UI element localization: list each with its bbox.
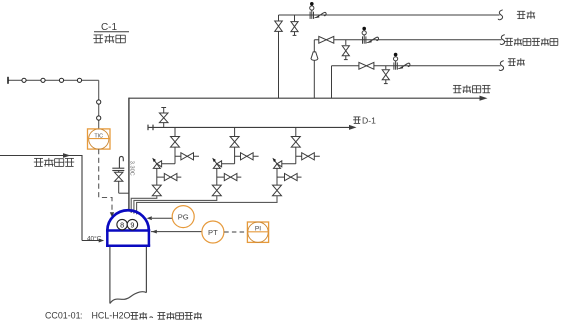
label zhu-an (inject ammonia) [517,11,535,19]
collector wires from injection groups to drum [131,196,277,215]
drum band bottom wire [106,244,150,247]
TIC control signal dashed wire to drum [99,149,115,217]
injection group 1 wire [156,168,158,185]
injection group 2 valve [241,153,254,160]
injection group 2 wire [216,168,218,185]
pipe break neutralizer [500,35,504,45]
check valve on ammonia line [310,2,326,19]
injection group 3 valve [302,153,315,160]
injection group 2 wire [217,176,242,178]
injection group 2 valve [230,137,239,148]
label C-1 equipment tag [94,22,129,33]
label changding-youqi (overhead gas) [453,85,491,93]
drain valve on neutralizer line [342,40,349,60]
liquid header wire to D-1 [148,125,357,131]
injection group 3 valve [291,137,300,148]
nozzle circle 9 [127,219,137,229]
svg-text:8: 8 [120,220,124,229]
drum dome shell [107,210,149,230]
injection group 2 anglevalve [212,158,221,169]
injection group 2 wire [234,127,236,163]
svg-text:D-1: D-1 [362,116,376,126]
injection group 1 anglevalve [152,158,161,169]
label 40 degC [87,234,102,242]
PT to PI dashed signal wire [224,231,247,233]
label changding-huiliu (reflux) [34,158,74,167]
svg-text:PG: PG [178,213,189,222]
nozzle circle 8 [117,219,127,229]
drain valve on ammonia line [291,15,298,35]
injection group 3 anglevalve [272,158,281,169]
instrument TIC temperature controller [88,129,111,149]
svg-text:CC01-01: CC01-01 [45,310,81,320]
injection group 2 wire [235,155,259,157]
instrument data-link wire with node circles [8,77,101,129]
PT wire [151,230,202,234]
injection quill funnel [311,52,318,60]
instrument PT pressure transmitter [202,221,224,243]
drain valve on water line [382,66,389,84]
injection group 1 valve [164,174,177,181]
label changyata (column name) [93,34,125,43]
drum shell walls [110,247,146,304]
label zhu-shui (inject water) [508,58,525,66]
drum band top wire [106,229,150,232]
block valve on ammonia drop [275,21,283,31]
line spec 3.30C [129,161,135,176]
overhead gas header wire [129,96,488,101]
injection group 3 wire [277,176,302,178]
injection group 1 wire [175,155,199,157]
caption corrosion note [45,310,202,320]
injection group 1 wire [157,163,175,165]
instrument PI pressure indicator [247,222,268,242]
injection group 1 valve [171,137,180,148]
check valve on water line [394,53,410,70]
drum band side walls [107,231,149,246]
label to D-1 [353,116,376,126]
pipe break water [499,61,503,71]
injection group 3 wire [276,168,278,185]
ammonia injection wire [279,15,500,98]
svg-text:PT: PT [208,228,218,237]
injection group 3 wire [277,163,296,165]
svg-text:40°C: 40°C [87,234,102,242]
injection group 3 wire [296,155,320,157]
svg-text:PI: PI [255,225,261,232]
pipe break ammonia [498,10,502,20]
injection group 3 valve [285,174,298,181]
label zhu-zhonghe-huanshiji [505,38,558,46]
sample point with valve and gooseneck [112,156,129,193]
svg-text:3.30C: 3.30C [129,161,135,176]
injection group 1 wire [157,176,182,178]
svg-text:HCL-H2O: HCL-H2O [92,310,131,320]
injection group 2 wire [217,163,235,165]
check valve on neutralizer line [362,27,378,44]
neutralizer injection wire [314,40,501,98]
gate valve on water line [359,62,374,69]
injection group 1 wire [174,127,176,163]
vent valve on header [159,107,168,127]
gate valve on neutralizer line [319,36,334,43]
water injection wire [332,66,501,98]
injection group 2 valve [212,185,221,196]
injection group 3 valve [273,185,282,196]
svg-text::: : [80,310,82,320]
drum shell break wavy [110,292,146,304]
PG wire [147,216,172,220]
overhead vapor riser wire [128,98,130,211]
instrument PG pressure gauge [172,206,194,228]
injection group 3 wire [295,127,297,163]
injection group 2 valve [224,174,237,181]
svg-text:TIC: TIC [94,133,103,139]
injection group 1 valve [181,153,194,160]
overhead reflux wire into drum [0,153,104,242]
svg-text:9: 9 [130,220,134,229]
injection group 1 valve [152,185,161,196]
